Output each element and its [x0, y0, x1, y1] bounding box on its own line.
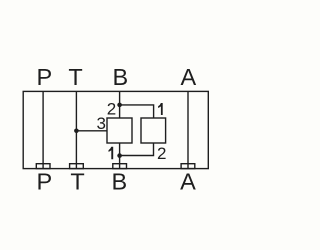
svg-text:A: A [180, 168, 196, 194]
wire port line P [42, 91, 44, 168]
junction node on B bottom [117, 153, 122, 158]
wire top rail from node on B to pin 1 of right element [120, 105, 154, 118]
wire branch from node on T to pin 3 of left element [76, 130, 107, 132]
wire port line T [75, 91, 77, 168]
wire port line A [187, 91, 189, 168]
svg-text:T: T [70, 168, 84, 194]
port marker T [70, 164, 84, 169]
wire port line B upper segment [119, 91, 121, 118]
svg-text:P: P [37, 168, 53, 194]
svg-text:2: 2 [157, 144, 166, 163]
svg-text:B: B [112, 168, 128, 194]
junction node on T [74, 129, 79, 134]
svg-text:T: T [68, 64, 82, 90]
valve body outline [23, 91, 208, 168]
svg-text:3: 3 [96, 114, 105, 133]
port marker A [181, 164, 195, 169]
svg-text:A: A [180, 64, 196, 90]
port marker P [36, 164, 50, 169]
component U2 right square element [141, 118, 166, 143]
wire port line B lower segment [119, 143, 121, 169]
svg-text:2: 2 [107, 100, 116, 119]
port marker B [113, 164, 127, 169]
svg-text:B: B [113, 64, 129, 90]
svg-text:P: P [36, 64, 52, 90]
wire bottom rail from pin 2 of right element to node on B [120, 143, 154, 156]
pin number 1 top of right element [158, 103, 163, 115]
component U1 left square element [107, 118, 132, 143]
junction node on B top [117, 103, 122, 108]
pin number 1 bottom of left element [109, 147, 114, 159]
